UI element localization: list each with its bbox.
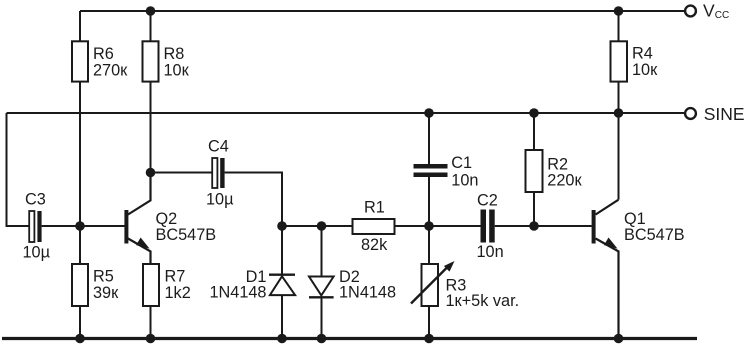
svg-text:10µ: 10µ (23, 243, 51, 261)
svg-text:C4: C4 (208, 137, 229, 155)
wire VCC rail (80, 10, 685, 12)
resistor R6 (72, 11, 88, 226)
junction C1 top (424, 108, 434, 118)
svg-text:1к+5k var.: 1к+5k var. (446, 292, 520, 310)
svg-text:10к: 10к (164, 61, 190, 79)
terminal VCC (685, 6, 696, 17)
resistor R1 (353, 219, 481, 234)
svg-text:BC547B: BC547B (624, 226, 685, 244)
wire Q2 collector to C4 (151, 172, 213, 174)
svg-text:C1: C1 (451, 154, 472, 172)
svg-text:10n: 10n (477, 243, 504, 261)
capacitor C4 (212, 158, 224, 188)
junction R5 ground (75, 334, 85, 344)
resistor R2 (526, 113, 543, 226)
svg-text:10к: 10к (632, 61, 658, 79)
svg-text:R6: R6 (93, 45, 114, 63)
junction C1 bottom / R3 (424, 221, 434, 231)
junction R4 bottom / SINE (614, 108, 624, 118)
resistor R3 (variable) (411, 226, 455, 337)
diode D2 (309, 226, 334, 337)
junction Q1 emitter ground (614, 334, 624, 344)
junction R4 top (614, 6, 624, 16)
junction D1 ground (277, 334, 287, 344)
resistor R4 (611, 11, 628, 113)
capacitor C1 (414, 113, 448, 226)
terminal SINE (685, 108, 696, 119)
wire C4 to D1 node (225, 173, 282, 227)
junction R2 top (529, 108, 539, 118)
svg-text:SINE: SINE (704, 104, 744, 124)
label VCC terminal (703, 1, 729, 21)
svg-text:R7: R7 (165, 268, 186, 286)
junction D2 top (317, 221, 327, 231)
wire SINE rail (7, 112, 686, 114)
svg-text:270к: 270к (93, 61, 128, 79)
wire C3 to Q2 base (42, 225, 125, 227)
svg-text:V: V (703, 1, 715, 21)
svg-text:R2: R2 (547, 155, 568, 173)
transistor Q2 (124, 173, 150, 265)
svg-text:C2: C2 (477, 192, 498, 210)
diode D1 (269, 226, 295, 337)
junction R2 bottom / C2 (529, 221, 539, 231)
svg-text:10n: 10n (451, 171, 478, 189)
wire D1 node to R1 (282, 225, 353, 227)
resistor R5 (72, 226, 88, 337)
svg-text:CC: CC (715, 10, 729, 21)
svg-text:Q1: Q1 (624, 210, 646, 228)
svg-text:R4: R4 (632, 44, 653, 62)
resistor R7 (143, 264, 159, 337)
svg-text:39к: 39к (93, 284, 119, 302)
capacitor C3 (29, 211, 41, 242)
svg-text:R1: R1 (364, 198, 385, 216)
svg-text:10µ: 10µ (206, 191, 234, 209)
wire bottom ground rail (2, 337, 697, 340)
svg-text:C3: C3 (25, 191, 46, 209)
junction R8 top (146, 6, 156, 16)
wire left feedback branch (7, 113, 30, 226)
junction R7 ground (146, 334, 156, 344)
svg-text:82k: 82k (361, 236, 388, 254)
svg-text:1N4148: 1N4148 (209, 284, 266, 302)
resistor R8 (143, 11, 159, 173)
svg-text:R5: R5 (93, 268, 114, 286)
transistor Q1 (592, 113, 619, 337)
svg-text:220к: 220к (547, 172, 582, 190)
junction D1 top (277, 221, 287, 231)
svg-text:BC547B: BC547B (156, 226, 217, 244)
svg-text:1k2: 1k2 (165, 284, 191, 302)
junction Q2 collector / C4 (146, 168, 156, 178)
junction D2 ground (317, 334, 327, 344)
capacitor C2 (481, 210, 592, 243)
svg-text:Q2: Q2 (156, 210, 178, 228)
svg-text:R8: R8 (164, 45, 185, 63)
svg-text:1N4148: 1N4148 (339, 284, 396, 302)
junction Q2 base / R6-R5 (75, 221, 85, 231)
junction R3 ground (424, 334, 434, 344)
